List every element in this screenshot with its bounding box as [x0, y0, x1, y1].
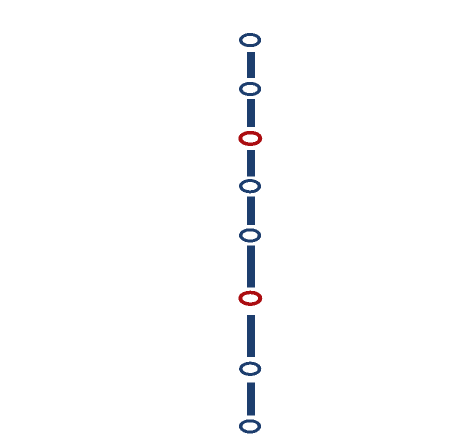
wire 7-8 [247, 382, 255, 415]
wire 4-5 [247, 197, 255, 225]
node 2 [239, 82, 261, 96]
node 6 (red) [238, 291, 262, 306]
wire 3-4 [247, 150, 255, 177]
wire 1-2 [247, 52, 255, 78]
wire 5-6 [247, 246, 255, 288]
wire 2-3 [247, 99, 255, 127]
node 8 [239, 419, 261, 433]
node 3 (red) [238, 131, 262, 146]
node 5 [239, 228, 261, 242]
node 1 [239, 33, 261, 47]
wire 6-7 [247, 315, 255, 357]
node 4 [239, 179, 261, 193]
node 7 [239, 362, 261, 376]
